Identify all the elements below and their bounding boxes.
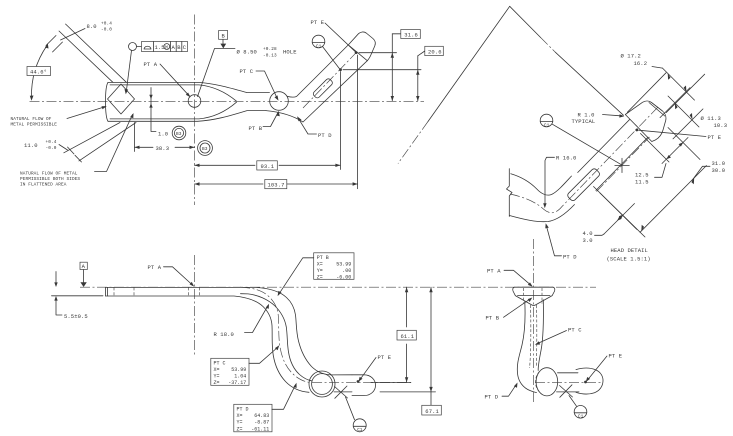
svg-text:IN FLATTENED AREA: IN FLATTENED AREA (20, 183, 67, 188)
svg-text:B3: B3 (202, 146, 208, 152)
natural flow inner lines (110, 85, 237, 101)
svg-text:M: M (165, 44, 168, 50)
svg-text:64.83: 64.83 (254, 413, 269, 419)
svg-text:PT D: PT D (237, 407, 249, 413)
svg-text:Y=: Y= (214, 374, 220, 380)
PT C label front (535, 327, 582, 345)
bend ellipse (536, 368, 558, 396)
svg-text:-0.13: -0.13 (263, 54, 277, 59)
svg-text:Z=: Z= (237, 426, 243, 432)
X weld mark front (560, 385, 573, 398)
svg-text:C1: C1 (316, 43, 322, 49)
neck edges (578, 119, 630, 172)
axis dash-dot (510, 107, 658, 213)
v left leg (428, 6, 510, 121)
dim 61.1 (371, 287, 416, 382)
head stadium (352, 375, 376, 396)
PT C label (240, 68, 279, 101)
PT B coord box (278, 253, 354, 296)
svg-text:PT B: PT B (317, 255, 329, 261)
svg-text:PT E: PT E (609, 353, 623, 360)
svg-text:Z=: Z= (317, 275, 323, 281)
riser axis (303, 53, 356, 108)
svg-text:+0.4: +0.4 (101, 22, 112, 27)
PT A label front (487, 268, 533, 287)
dim 17.2 (621, 53, 705, 113)
natural flow label 2 (20, 113, 134, 188)
svg-text:B: B (177, 44, 181, 51)
tube center path (240, 287, 411, 382)
svg-text:PT D: PT D (485, 394, 499, 401)
PT E dot bottom view (357, 380, 360, 383)
C1 balloon front (569, 396, 587, 420)
svg-text:61.1: 61.1 (401, 333, 415, 340)
svg-text:+0.4: +0.4 (46, 140, 57, 145)
svg-text:1.04: 1.04 (234, 374, 246, 380)
PT D label front (485, 383, 518, 401)
svg-text:Z=: Z= (214, 380, 220, 386)
PT C circle (270, 92, 289, 111)
svg-text:PT C: PT C (240, 68, 254, 75)
bend inner (287, 45, 348, 97)
hidden bore lines (530, 305, 537, 368)
svg-text:12.5: 12.5 (635, 172, 649, 179)
PT B label (249, 111, 280, 132)
dim 31.6 (359, 30, 420, 102)
tab inner line (518, 294, 551, 296)
PT D coord box (234, 383, 297, 433)
svg-text:TYPICAL: TYPICAL (572, 118, 596, 125)
dim 67.1 (380, 287, 441, 415)
PT E label head detail (639, 130, 722, 141)
dim 12.5 (635, 134, 688, 186)
svg-text:METAL PERMISSIBLE: METAL PERMISSIBLE (11, 123, 58, 128)
FCF frame (125, 42, 188, 95)
datum B flag (198, 31, 236, 97)
head (348, 32, 375, 61)
svg-text:X=: X= (317, 262, 323, 268)
svg-text:38.3: 38.3 (156, 145, 170, 152)
svg-text:8.0: 8.0 (87, 23, 97, 30)
X weld mark (335, 386, 348, 398)
PT B label front (486, 298, 533, 322)
PT E dot (355, 51, 358, 54)
PT E dot front (584, 381, 587, 384)
dim 8.0 (46, 22, 112, 53)
svg-text:NATURAL FLOW OF: NATURAL FLOW OF (11, 117, 52, 122)
svg-text:31.6: 31.6 (404, 32, 418, 39)
centerline vertical through hole (194, 15, 196, 206)
neck right edge (538, 300, 543, 371)
svg-text:PT E: PT E (708, 134, 722, 141)
dim 44.6 arc (27, 43, 51, 101)
svg-text:16.2: 16.2 (634, 60, 648, 67)
hole PT A (188, 95, 201, 108)
svg-text:PT E: PT E (378, 354, 392, 361)
tube upper edge (511, 174, 572, 195)
svg-text:+0.28: +0.28 (263, 47, 277, 52)
svg-text:Ø 8.50: Ø 8.50 (237, 49, 257, 56)
break line (507, 169, 513, 217)
dim 11.3 (660, 88, 727, 139)
C1 balloon bottom view (346, 397, 367, 433)
dim 31.0 (600, 128, 725, 238)
dim 93.1 (195, 72, 341, 171)
svg-text:PT B: PT B (249, 125, 263, 132)
svg-text:C1: C1 (544, 122, 550, 128)
svg-text:PT B: PT B (486, 315, 500, 322)
weld point dot (339, 68, 342, 71)
svg-text:B: B (222, 33, 226, 40)
head blob (576, 368, 603, 394)
tube lower edge (510, 205, 575, 222)
svg-text:11.0: 11.0 (24, 142, 38, 149)
PT E label (311, 19, 356, 52)
svg-text:A: A (172, 44, 176, 51)
svg-text:-0.0: -0.0 (101, 28, 112, 33)
collar band (566, 168, 600, 202)
C1 balloon head detail (540, 114, 620, 164)
PT C coord box (211, 345, 279, 386)
head chamfer inner line (649, 103, 665, 117)
svg-text:PT A: PT A (148, 264, 162, 271)
C1 balloon (312, 35, 339, 68)
dim 20.6 (343, 46, 443, 101)
svg-text:53.99: 53.99 (231, 367, 246, 373)
projection axis through cross (597, 137, 650, 192)
svg-text:PT D: PT D (563, 254, 577, 261)
svg-text:-0.0: -0.0 (46, 146, 57, 151)
svg-text:1.0: 1.0 (158, 131, 168, 138)
svg-text:1.5: 1.5 (155, 44, 165, 51)
main horizontal centerline (80, 286, 596, 288)
PT E dot head detail (635, 129, 638, 132)
datum A flag (80, 262, 87, 287)
hole size text (237, 47, 298, 59)
svg-text:.00: .00 (342, 268, 351, 274)
dim 11.0 (24, 123, 136, 163)
dim 1.0 with B3 (149, 88, 186, 140)
circled B3 (198, 141, 213, 156)
dim 4.0 (583, 187, 638, 245)
PT D label (297, 116, 332, 139)
diagonal raw tube (59, 31, 113, 82)
bottom axis (535, 381, 603, 383)
PT E label bottom (358, 354, 391, 382)
inner transition line (241, 294, 312, 381)
vertical centerline at PT A (194, 255, 196, 357)
svg-text:C1: C1 (578, 414, 584, 420)
svg-text:5.5±0.5: 5.5±0.5 (64, 313, 88, 320)
svg-text:PT D: PT D (318, 132, 332, 139)
svg-text:PT C: PT C (214, 361, 226, 367)
svg-text:67.1: 67.1 (425, 408, 439, 415)
svg-text:X=: X= (214, 367, 220, 373)
flattened tube body outline (108, 82, 270, 92)
tab hidden hole lines (524, 288, 542, 304)
PT A label bottom (148, 264, 195, 287)
svg-text:R 16.0: R 16.0 (556, 155, 576, 162)
svg-text:HEAD DETAIL: HEAD DETAIL (611, 247, 648, 254)
horizontal tube edges (557, 373, 580, 392)
dim 103.7 (195, 55, 358, 189)
svg-text:Ø 11.3: Ø 11.3 (701, 115, 721, 122)
svg-text:PT E: PT E (311, 19, 325, 26)
svg-text:30.0: 30.0 (712, 167, 726, 174)
PT D label head detail (545, 223, 577, 260)
vertical centerline (533, 239, 535, 405)
centerline horizontal (30, 100, 425, 102)
svg-text:B3: B3 (176, 131, 182, 137)
svg-text:103.7: 103.7 (268, 182, 285, 189)
svg-text:3.0: 3.0 (583, 237, 593, 244)
svg-text:PERMISSIBLE BOTH SIDES: PERMISSIBLE BOTH SIDES (20, 177, 80, 182)
svg-text:-61.11: -61.11 (251, 426, 269, 432)
svg-text:93.1: 93.1 (261, 163, 275, 170)
tab outline (513, 287, 555, 305)
bend outer (266, 61, 367, 122)
svg-text:HOLE: HOLE (283, 49, 297, 56)
hidden dashes on strip (114, 287, 200, 296)
svg-text:-8.87: -8.87 (254, 420, 269, 426)
strip left cap (106, 287, 108, 296)
svg-text:PT A: PT A (144, 61, 158, 68)
svg-text:PT A: PT A (487, 268, 501, 275)
svg-text:31.0: 31.0 (712, 160, 726, 167)
svg-text:53.99: 53.99 (336, 262, 351, 268)
svg-text:20.6: 20.6 (428, 49, 442, 56)
svg-text:R 18.0: R 18.0 (214, 331, 234, 338)
bend center cross (615, 158, 630, 172)
neck left edge (517, 302, 536, 393)
svg-text:Ø 17.2: Ø 17.2 (621, 53, 641, 60)
svg-text:C: C (183, 44, 187, 51)
PT E label front (586, 353, 623, 383)
svg-text:11.5: 11.5 (635, 179, 649, 186)
svg-text:-6.00: -6.00 (336, 275, 351, 281)
R 1.0 TYPICAL label (572, 112, 625, 126)
collar band (312, 78, 333, 99)
ferrule ring (309, 371, 335, 397)
strip top edge (106, 287, 353, 375)
svg-text:NATURAL FLOW OF METAL: NATURAL FLOW OF METAL (20, 172, 78, 177)
dim 5.5 (52, 272, 104, 321)
v right leg (510, 6, 624, 115)
svg-text:4.0: 4.0 (583, 230, 593, 237)
strip bottom edge / left tube edge (106, 296, 310, 392)
svg-text:C1: C1 (357, 427, 363, 433)
flattened diamond (108, 84, 135, 114)
svg-text:X=: X= (237, 413, 243, 419)
svg-text:10.3: 10.3 (714, 122, 728, 129)
dim 38.3 (135, 123, 195, 152)
R 18.0 label (214, 304, 270, 338)
natural flow label 1 (11, 106, 107, 127)
head cap (625, 101, 666, 141)
svg-text:PT C: PT C (568, 327, 582, 334)
svg-text:(SCALE 1.5:1): (SCALE 1.5:1) (607, 256, 651, 263)
R 16.0 label (543, 155, 576, 209)
svg-text:44.6°: 44.6° (30, 69, 47, 76)
svg-text:Y=: Y= (317, 268, 323, 274)
PT A label (144, 61, 191, 97)
svg-text:-37.17: -37.17 (228, 380, 246, 386)
svg-text:Y=: Y= (237, 420, 243, 426)
